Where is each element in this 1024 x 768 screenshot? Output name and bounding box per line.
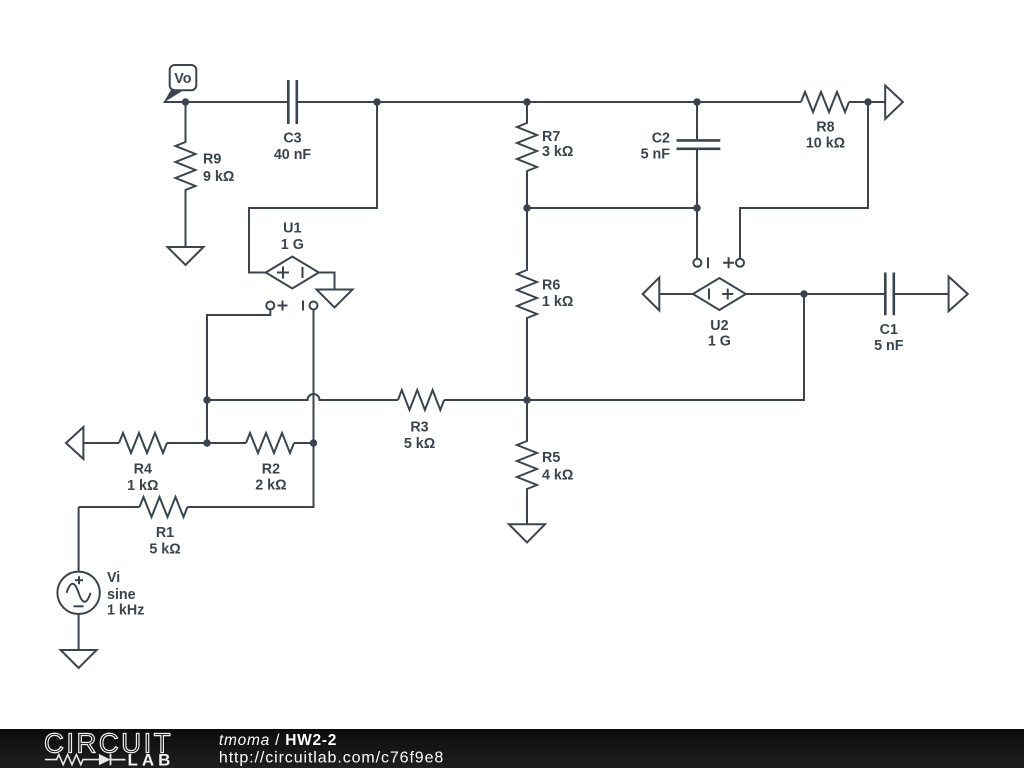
svg-text:1 G: 1 G xyxy=(708,334,731,350)
wire R2 to node xyxy=(294,442,314,444)
svg-text:R4: R4 xyxy=(134,461,152,477)
wire U1 control - down to R1 xyxy=(188,310,314,508)
net flag Vo xyxy=(164,65,197,103)
ground (R5) xyxy=(509,524,545,542)
svg-text:5 nF: 5 nF xyxy=(874,338,904,354)
ground (R9) xyxy=(168,247,204,265)
wire U2 to C1 xyxy=(746,293,885,295)
svg-text:Vi: Vi xyxy=(107,570,120,586)
ground (Vi) xyxy=(61,650,97,668)
logo diode xyxy=(99,754,111,765)
op-amp U2 (VCVS diamond) xyxy=(693,278,746,310)
wire Vi to ground xyxy=(78,614,80,650)
node dot R4/R2 xyxy=(203,439,210,446)
svg-text:5 nF: 5 nF xyxy=(641,147,671,163)
svg-text:R3: R3 xyxy=(410,419,428,435)
output port arrow (right) xyxy=(949,277,968,312)
node dot R2 right xyxy=(310,439,317,446)
node dot mid rail at R7/R6 xyxy=(523,204,530,211)
resistor R9 xyxy=(176,102,196,247)
ground (U1) xyxy=(317,290,353,308)
node dot top rail at R7 xyxy=(523,98,530,105)
svg-text:R8: R8 xyxy=(816,120,834,136)
svg-text:3 kΩ: 3 kΩ xyxy=(542,144,573,160)
resistor R3 xyxy=(398,390,444,410)
wire feedback row with hop over control wire xyxy=(207,394,398,400)
node dot top rail at R8 out xyxy=(864,98,871,105)
svg-text:2 kΩ: 2 kΩ xyxy=(255,478,286,494)
resistor R7 xyxy=(517,102,537,208)
svg-text:1 kΩ: 1 kΩ xyxy=(127,478,158,494)
resistor R1 xyxy=(140,497,188,517)
input port arrow (R4 left) xyxy=(66,427,83,459)
output port arrow (top right) xyxy=(885,86,903,119)
wire R8 node down to U2 control + xyxy=(740,102,868,259)
svg-text:sine: sine xyxy=(107,587,136,603)
svg-text:1 kHz: 1 kHz xyxy=(107,602,144,618)
wire mid rail (R7/R6 node to C2) xyxy=(527,207,697,209)
node dot feedback row at R6/R5 xyxy=(523,396,530,403)
wire U1 control + to node xyxy=(207,310,270,444)
node dot feedback row left xyxy=(203,396,210,403)
voltage source Vi xyxy=(78,507,80,572)
svg-text:R5: R5 xyxy=(542,450,560,466)
wire node to R2 xyxy=(207,442,246,444)
U2 control terminal - xyxy=(693,259,701,267)
svg-text:R7: R7 xyxy=(542,129,560,145)
node dot top rail at C2 xyxy=(693,98,700,105)
resistor R2 xyxy=(246,433,294,453)
wire top rail right (C3 to R8) xyxy=(297,101,801,103)
svg-text:R2: R2 xyxy=(262,462,280,478)
wire port to U2 xyxy=(659,293,693,295)
svg-text:Vo: Vo xyxy=(174,71,191,87)
capacitor C1 xyxy=(885,273,894,316)
node dot mid rail at C2 xyxy=(693,204,700,211)
node dot top rail at R9 xyxy=(182,98,189,105)
logo resistor squiggle xyxy=(45,755,99,765)
svg-text:U2: U2 xyxy=(710,318,728,334)
wire R3 to U2 output node xyxy=(444,294,804,400)
svg-text:C1: C1 xyxy=(880,322,898,338)
resistor R8 xyxy=(801,92,849,112)
capacitor C2 xyxy=(696,102,698,139)
svg-text:5 kΩ: 5 kΩ xyxy=(149,542,180,558)
svg-text:R9: R9 xyxy=(203,151,221,167)
svg-text:tmoma / HW2-2: tmoma / HW2-2 xyxy=(219,732,337,749)
svg-text:1 kΩ: 1 kΩ xyxy=(542,294,573,310)
svg-text:40 nF: 40 nF xyxy=(274,147,312,163)
capacitor C3 xyxy=(288,80,297,124)
wire R4 to node xyxy=(167,442,207,444)
svg-text:9 kΩ: 9 kΩ xyxy=(203,169,234,185)
svg-text:R6: R6 xyxy=(542,278,560,294)
wire U1 to ground xyxy=(319,273,335,290)
resistor R6 xyxy=(517,208,537,400)
svg-text:http://circuitlab.com/c76f9e8: http://circuitlab.com/c76f9e8 xyxy=(219,750,444,767)
svg-text:C2: C2 xyxy=(652,131,670,147)
wire port to R4 xyxy=(83,442,119,444)
wire C1 to output port xyxy=(894,293,949,295)
U1 control terminal - xyxy=(302,301,304,311)
wire Vi to R1 xyxy=(79,506,140,508)
op-amp U1 (VCVS diamond) xyxy=(266,257,319,289)
svg-text:1 G: 1 G xyxy=(281,237,304,253)
svg-text:5 kΩ: 5 kΩ xyxy=(404,436,435,452)
svg-text:U1: U1 xyxy=(283,221,301,237)
U2 control terminal + xyxy=(723,257,734,268)
node dot top rail at U1 branch xyxy=(373,98,380,105)
svg-text:R1: R1 xyxy=(156,525,174,541)
wire R8 to output port xyxy=(849,101,885,103)
svg-text:10 kΩ: 10 kΩ xyxy=(806,135,845,151)
resistor R4 xyxy=(119,433,167,453)
resistor R5 xyxy=(517,400,537,524)
svg-text:LAB: LAB xyxy=(128,751,175,768)
svg-text:4 kΩ: 4 kΩ xyxy=(542,467,573,483)
node dot U2 output xyxy=(800,290,807,297)
input port arrow (U2 left) xyxy=(643,278,660,311)
svg-text:C3: C3 xyxy=(283,131,301,147)
U1 control terminal + xyxy=(266,302,274,310)
wire top rail to U1 output xyxy=(249,102,377,273)
wire top rail left (Vo to C3) xyxy=(164,101,289,103)
